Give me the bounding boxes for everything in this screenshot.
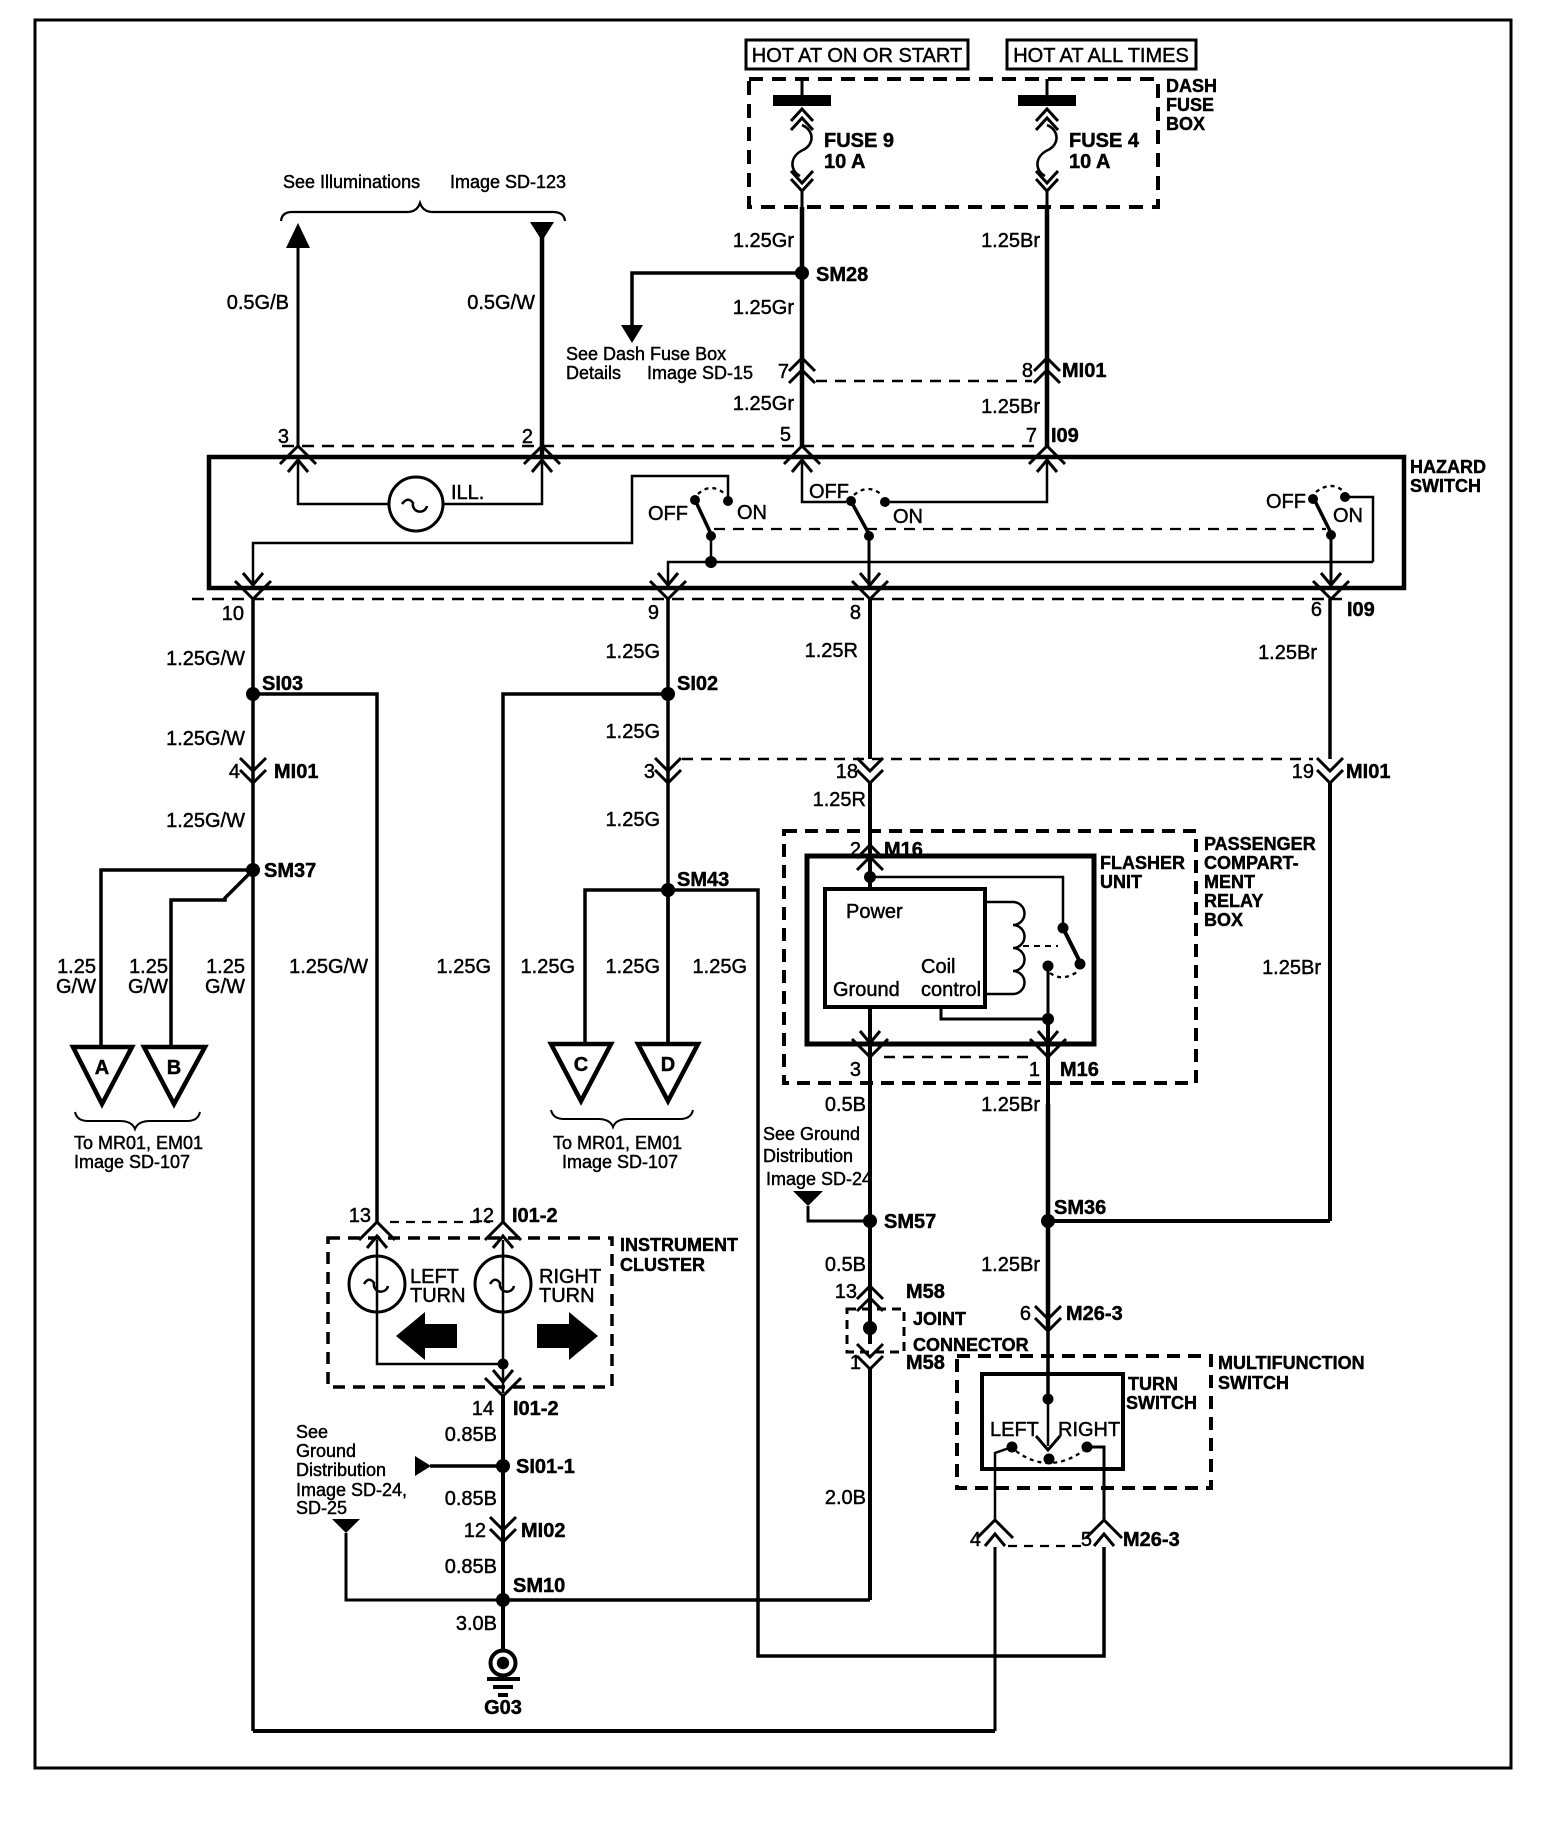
svg-text:C: C [574,1054,588,1076]
svg-text:0.5G/B: 0.5G/B [227,292,289,314]
left turn arrow icon [396,1312,457,1360]
wire SM28 branch to dash fuse box details arrow [632,273,802,325]
svg-text:SWITCH: SWITCH [1410,476,1481,496]
switch SW3 link node [1326,530,1336,540]
switch SW1 OFF contact [690,495,700,505]
connector pin 2 M16 [850,839,923,870]
lamp ILL. [389,477,443,531]
svg-text:3: 3 [644,761,655,783]
svg-text:SWITCH: SWITCH [1218,1373,1289,1393]
label box HOT AT ALL TIMES [1007,40,1196,69]
svg-text:4: 4 [229,761,240,783]
connector pin 5 I09 [780,424,820,472]
svg-text:MENT: MENT [1204,872,1255,892]
connector row M26-3 dashed [1008,1545,1082,1547]
label TURN SWITCH [1126,1374,1197,1413]
svg-text:1.25Br: 1.25Br [981,230,1040,252]
turn switch pole arrow [1036,1399,1060,1450]
svg-text:CLUSTER: CLUSTER [620,1255,705,1275]
connector pin 1 M58 [850,1344,945,1374]
svg-text:M58: M58 [906,1352,945,1374]
svg-text:3.0B: 3.0B [456,1613,497,1635]
svg-text:12: 12 [472,1205,494,1227]
connector pin 18 MI01 [836,758,883,783]
wire SM43 branch right to turn switch pin5 [668,890,1104,1656]
svg-text:M26-3: M26-3 [1066,1303,1123,1325]
wire RIGHT contact to pin5 [1087,1447,1104,1520]
label PASSENGER COMPARTMENT RELAY BOX [1204,834,1316,930]
junction coil control node [1042,1013,1054,1025]
connector row I01-2 dashed [390,1221,490,1223]
wire pin5 to SW2 OFF [802,460,846,502]
svg-text:SI01-1: SI01-1 [516,1456,575,1478]
wire pin3 to lamp [298,460,389,504]
connector pin 14 I01-2 [472,1370,559,1420]
svg-text:1.25Br: 1.25Br [1258,642,1317,664]
connector pin 2 I09 [522,426,560,472]
svg-text:5: 5 [1081,1529,1092,1551]
svg-text:M16: M16 [1060,1059,1099,1081]
svg-text:OFF: OFF [1266,491,1306,513]
switch SW2 armature [852,503,869,534]
passenger compartment relay box (dashed) [784,831,1196,1083]
off-page triangle A [73,1047,132,1104]
svg-text:RIGHT: RIGHT [1058,1419,1120,1441]
arrow up to illuminations [286,223,310,248]
switch SW2 link node [864,531,874,541]
svg-text:See: See [296,1422,328,1442]
svg-text:Image SD-107: Image SD-107 [562,1152,678,1172]
svg-text:2: 2 [522,426,533,448]
svg-text:HOT AT ON OR START: HOT AT ON OR START [752,45,962,67]
connector pin 12 I01-2 [472,1205,558,1248]
relay armature tip [1075,959,1086,970]
brace under C D [551,1110,693,1127]
switch SW3 armature [1315,501,1331,533]
wire 1.25Br fuse4 to pin8 MI01 [1045,207,1050,446]
svg-text:I01-2: I01-2 [512,1205,558,1227]
svg-text:1.25Br: 1.25Br [981,1254,1040,1276]
wire SW2 armature to pin8 [868,536,871,588]
svg-text:18: 18 [836,761,858,783]
svg-text:10: 10 [222,603,244,625]
wire ground out of flasher [868,1007,872,1104]
svg-text:BOX: BOX [1204,910,1243,930]
wire lower contact to coil-control junction [1047,966,1050,1019]
label 1.25 G/W (B) [128,956,168,998]
svg-text:INSTRUMENT: INSTRUMENT [620,1235,738,1255]
svg-text:I09: I09 [1347,599,1375,621]
wire 0.5B pin3 M16 to SM57 [868,1104,872,1221]
note See Ground Distribution Image SD-24 SD-25 [296,1422,407,1518]
arrow to ground distribution [793,1191,823,1206]
svg-text:To MR01, EM01: To MR01, EM01 [74,1133,203,1153]
svg-text:0.5B: 0.5B [825,1254,866,1276]
switch gang dashed link [714,528,1326,530]
wire SW3 armature to pin6 [1330,535,1333,588]
connector row MI01 dashed [816,380,1032,383]
svg-text:3: 3 [850,1059,861,1081]
svg-text:Ground: Ground [833,979,900,1001]
svg-text:Ground: Ground [296,1441,356,1461]
svg-text:I01-2: I01-2 [513,1398,559,1420]
off-page triangle C [551,1044,611,1101]
label JOINT CONNECTOR [913,1309,1029,1355]
svg-text:0.85B: 0.85B [445,1424,497,1446]
svg-text:To MR01, EM01: To MR01, EM01 [553,1133,682,1153]
lamp RIGHT TURN [475,1256,531,1312]
fuse F4 symbol [1036,109,1058,207]
svg-text:SM36: SM36 [1054,1197,1106,1219]
switch SW3 OFF contact [1308,494,1318,504]
wire 1.25R pin8 to pin18 [868,599,872,759]
wire SI02 branch to cluster pin12 [503,694,668,1222]
wire output bus to pin9 [668,562,1373,588]
svg-text:Image SD-107: Image SD-107 [74,1152,190,1172]
svg-text:SM43: SM43 [677,869,729,891]
right turn arrow icon [537,1312,598,1360]
svg-text:Power: Power [846,901,903,923]
connector pin 6 M26-3 [1020,1303,1123,1331]
wire 0.85B pin14 to SI01-1 [501,1396,505,1651]
multifunction switch dashed box [957,1356,1211,1488]
switch SW2 OFF contact [846,496,856,506]
connector pin 7 I09 [1026,425,1079,472]
svg-text:Distribution: Distribution [296,1460,386,1480]
wire pin12 through right lamp [502,1240,505,1393]
wire LEFT contact to pin4 [995,1447,1012,1520]
wire SM43 branch to triangle C [585,890,668,1044]
fuse F9 symbol [791,109,813,207]
arrow ground distribution left [332,1519,360,1533]
svg-text:DASH: DASH [1166,76,1217,96]
relay pivot contact [1058,923,1069,934]
svg-text:HOT AT ALL TIMES: HOT AT ALL TIMES [1013,45,1189,67]
wire contact out of flasher [1046,1019,1050,1104]
wire lamp to pin2 [443,460,542,504]
svg-text:1.25G/W: 1.25G/W [166,810,245,832]
svg-text:TURN: TURN [1128,1374,1178,1394]
svg-text:1.25G: 1.25G [606,809,660,831]
connector pin 8 I09 [850,573,888,624]
label FUSE 9 10 A [824,130,894,173]
svg-text:1.25G: 1.25G [606,641,660,663]
svg-text:2.0B: 2.0B [825,1487,866,1509]
arrow to dash fuse box details [621,325,643,343]
svg-text:MI01: MI01 [274,761,318,783]
relay coil [985,902,1025,994]
svg-text:A: A [95,1057,109,1079]
off-page triangle B [144,1047,205,1104]
connector pin 1 M16 [1029,1031,1099,1081]
switch SW3 ON contact [1340,492,1350,502]
wire 1.25Br SM36 to pin6 M26-3 [1046,1221,1051,1331]
arrow ground distribution stub [415,1456,431,1476]
label RIGHT TURN [539,1266,601,1307]
svg-text:FUSE 9: FUSE 9 [824,130,894,152]
svg-text:3: 3 [278,426,289,448]
svg-text:0.85B: 0.85B [445,1556,497,1578]
svg-text:G/W: G/W [205,976,245,998]
svg-text:FLASHER: FLASHER [1100,853,1185,873]
connector pin 7 MI01 [778,358,815,383]
node SI03 [246,673,303,701]
svg-text:SM57: SM57 [884,1211,936,1233]
svg-text:1.25G: 1.25G [521,956,575,978]
svg-text:1.25G: 1.25G [606,721,660,743]
wire flasher node to relay pivot [870,877,1063,925]
svg-text:1: 1 [850,1352,861,1374]
svg-text:SM37: SM37 [264,860,316,882]
instrument cluster dashed box [328,1238,612,1387]
node SI02 [661,673,718,701]
node SM10 [496,1575,565,1607]
connector pin 10 I09 [222,573,271,625]
wire 0.5G/W down to pin2 [540,230,545,457]
svg-text:14: 14 [472,1398,494,1420]
wire SM10 bus to 2.0B riser [503,1598,870,1602]
wire SM36 to right riser [1048,1219,1330,1223]
svg-text:TURN: TURN [539,1285,595,1307]
svg-text:PASSENGER: PASSENGER [1204,834,1316,854]
svg-text:SM10: SM10 [513,1575,565,1597]
svg-text:4: 4 [970,1529,981,1551]
svg-text:MULTIFUNCTION: MULTIFUNCTION [1218,1353,1365,1373]
turn switch dashed throw arc [1016,1451,1083,1463]
note See Dash Fuse Box Details Image SD-15 [566,344,753,383]
svg-text:0.5G/W: 0.5G/W [467,292,535,314]
svg-text:Coil: Coil [921,956,955,978]
svg-text:13: 13 [349,1205,371,1227]
svg-text:10 A: 10 A [1069,151,1111,173]
connector pin 3 I09 [278,426,316,472]
svg-text:Image SD-123: Image SD-123 [450,172,566,192]
switch SW1 ON contact [723,496,733,506]
junction lamps common [498,1359,509,1370]
wire 1.25G/W pin10 down to bottom bus [251,599,255,1731]
node SI01-1 [496,1456,575,1478]
hazard switch box [209,457,1404,588]
wire SW3 ON to bus [1345,497,1373,562]
brace under A B [75,1112,200,1129]
fuse F9 bus bar [773,79,831,106]
switch SW1 armature [696,502,711,534]
svg-text:1.25G/W: 1.25G/W [166,728,245,750]
svg-text:7: 7 [1026,425,1037,447]
svg-text:BOX: BOX [1166,114,1205,134]
svg-text:1.25G: 1.25G [606,956,660,978]
relay lower contact [1043,961,1054,972]
svg-text:FUSE 4: FUSE 4 [1069,130,1140,152]
note See Illuminations Image SD-123 [283,172,566,192]
svg-text:RELAY: RELAY [1204,891,1263,911]
wire pin10 internal bus [253,476,728,588]
note To MR01 EM01 Image SD-107 (left) [74,1133,203,1172]
node SM37 [246,860,316,882]
turn switch RIGHT contact [1082,1442,1093,1453]
svg-text:13: 13 [835,1281,857,1303]
svg-text:SI02: SI02 [677,673,718,695]
svg-text:0.85B: 0.85B [445,1488,497,1510]
node SM43 [661,869,729,897]
svg-text:Image SD-24,: Image SD-24, [296,1480,407,1500]
switch SW2 ON contact [880,497,890,507]
svg-text:SD-25: SD-25 [296,1498,347,1518]
label FUSE 4 10 A [1069,130,1140,173]
svg-text:M58: M58 [906,1281,945,1303]
node SM36 [1041,1197,1106,1228]
wire pin4 down to bottom bus [994,1547,997,1731]
off-page triangle D [638,1044,698,1101]
wire SM37 to triangle A [101,870,253,1047]
connector row M16 dashed [884,1056,1035,1059]
turn switch common contact [1044,1454,1055,1465]
svg-text:10 A: 10 A [824,151,866,173]
label 1.25 G/W (main) [205,956,245,998]
wire ground distribution to SM10 [346,1533,503,1600]
label FLASHER UNIT [1100,853,1185,892]
svg-text:1.25Gr: 1.25Gr [733,393,794,415]
svg-text:G/W: G/W [56,976,96,998]
wire 1.25R pin18 to flasher [868,783,872,889]
svg-text:SWITCH: SWITCH [1126,1393,1197,1413]
svg-text:ON: ON [1333,505,1363,527]
turn switch input node [1043,1394,1054,1405]
svg-text:See Illuminations: See Illuminations [283,172,420,192]
wire bottom bus pin4 to left riser [253,1729,995,1733]
svg-text:12: 12 [464,1520,486,1542]
label box HOT AT ON OR START [746,40,968,69]
wire pin6 M26-3 to turn switch [1046,1331,1050,1399]
connector row I09 bottom dashed [192,598,1342,601]
label Coil control [921,956,981,1001]
wire 2.0B pin1 M58 down to SM10 bus [868,1369,872,1600]
wire 1.25G pin9 down [666,599,670,1044]
svg-text:M26-3: M26-3 [1123,1529,1180,1551]
wire 1.25Br pin6 to pin19 [1328,599,1332,759]
svg-text:JOINT: JOINT [913,1309,966,1329]
flasher unit box [807,856,1094,1044]
svg-text:1.25R: 1.25R [805,640,858,662]
svg-text:ON: ON [737,502,767,524]
lamp LEFT TURN [349,1256,405,1312]
connector pin 12 MI02 [464,1517,566,1542]
note See Ground Distribution Image SD-24 [763,1124,872,1189]
switch SW1 dashed throw [698,488,725,494]
ground symbol G03 [484,1651,522,1720]
connector pin 13 I01-2 [349,1205,395,1248]
svg-text:D: D [661,1054,675,1076]
svg-text:Image SD-15: Image SD-15 [647,363,753,383]
node SM57 [863,1211,936,1233]
svg-text:HAZARD: HAZARD [1410,457,1486,477]
svg-text:1.25G: 1.25G [437,956,491,978]
connector pin 6 I09 [1311,573,1375,621]
svg-text:See Ground: See Ground [763,1124,860,1144]
wire SW1 armature to bus [710,536,713,562]
svg-text:1.25Br: 1.25Br [981,396,1040,418]
svg-text:I09: I09 [1051,425,1079,447]
label 1.25 G/W (A) [56,956,96,998]
flasher inner control box [825,889,985,1007]
joint connector node [863,1321,877,1335]
wire SM57 to joint connector [868,1221,872,1344]
svg-text:SM28: SM28 [816,264,868,286]
svg-text:TURN: TURN [410,1285,466,1307]
arrow down from SD-123 [530,222,554,241]
svg-text:8: 8 [1022,360,1033,382]
connector row I09 dashed [282,445,1035,448]
brace over illumination wires [281,203,565,221]
svg-text:G/W: G/W [128,976,168,998]
wire SI01-1 stub left [430,1464,503,1468]
svg-text:1.25: 1.25 [206,956,245,978]
svg-text:1.25: 1.25 [129,956,168,978]
connector pin 9 I09 [648,573,686,624]
wire 1.25Gr SM28 to pin7 MI01 [800,273,805,446]
coil to armature dashed link [1023,945,1058,947]
svg-text:LEFT: LEFT [990,1419,1039,1441]
connector pin 13 M58 [835,1281,945,1311]
svg-text:1.25Br: 1.25Br [1262,957,1321,979]
svg-text:1.25Br: 1.25Br [981,1094,1040,1116]
svg-text:ON: ON [893,506,923,528]
svg-text:1: 1 [1029,1059,1040,1081]
joint connector dashed box [847,1309,904,1352]
wire SM43 down to triangle D [666,890,670,1044]
node SM28 [795,264,868,286]
svg-text:B: B [167,1057,181,1079]
svg-text:6: 6 [1311,599,1322,621]
svg-text:UNIT: UNIT [1100,872,1142,892]
svg-text:1.25Gr: 1.25Gr [733,297,794,319]
svg-text:MI01: MI01 [1062,360,1106,382]
svg-text:9: 9 [648,602,659,624]
svg-text:Distribution: Distribution [763,1146,853,1166]
wire ground distribution to SM57 [808,1206,870,1221]
svg-text:COMPART-: COMPART- [1204,853,1299,873]
wire SI03 branch to cluster pin13 [253,694,377,1222]
switch SW2 dashed throw [854,489,882,495]
label MULTIFUNCTION SWITCH [1218,1353,1365,1393]
connector pin 5 M26-3 [1081,1520,1180,1551]
dash fuse box (dashed) [749,79,1158,207]
svg-text:8: 8 [850,602,861,624]
svg-text:See Dash Fuse Box: See Dash Fuse Box [566,344,726,364]
junction SW1 on output bus [705,556,717,568]
connector pin 4 MI01 [229,758,319,783]
svg-text:OFF: OFF [648,503,688,525]
svg-text:OFF: OFF [809,481,849,503]
svg-text:1.25G: 1.25G [693,956,747,978]
svg-text:control: control [921,979,981,1001]
connector pin 8 MI01 [1022,358,1107,383]
fuse F4 bus bar [1018,79,1076,106]
wire 1.25Br pin1 M16 to SM36 [1046,1104,1051,1221]
svg-text:7: 7 [778,361,789,383]
svg-text:G03: G03 [484,1697,522,1719]
svg-text:1.25G/W: 1.25G/W [166,648,245,670]
label DASH FUSE BOX [1166,76,1217,134]
note To MR01 EM01 Image SD-107 (middle) [553,1133,682,1172]
svg-text:MI01: MI01 [1346,761,1390,783]
wire 1.25Br pin19 down to SM36 [1328,783,1332,1221]
connector pin 3 MI01 [644,758,681,783]
svg-text:5: 5 [780,424,791,446]
svg-text:SI03: SI03 [262,673,303,695]
connector row MI01 lower dashed [682,758,1313,761]
svg-text:0.5B: 0.5B [825,1094,866,1116]
